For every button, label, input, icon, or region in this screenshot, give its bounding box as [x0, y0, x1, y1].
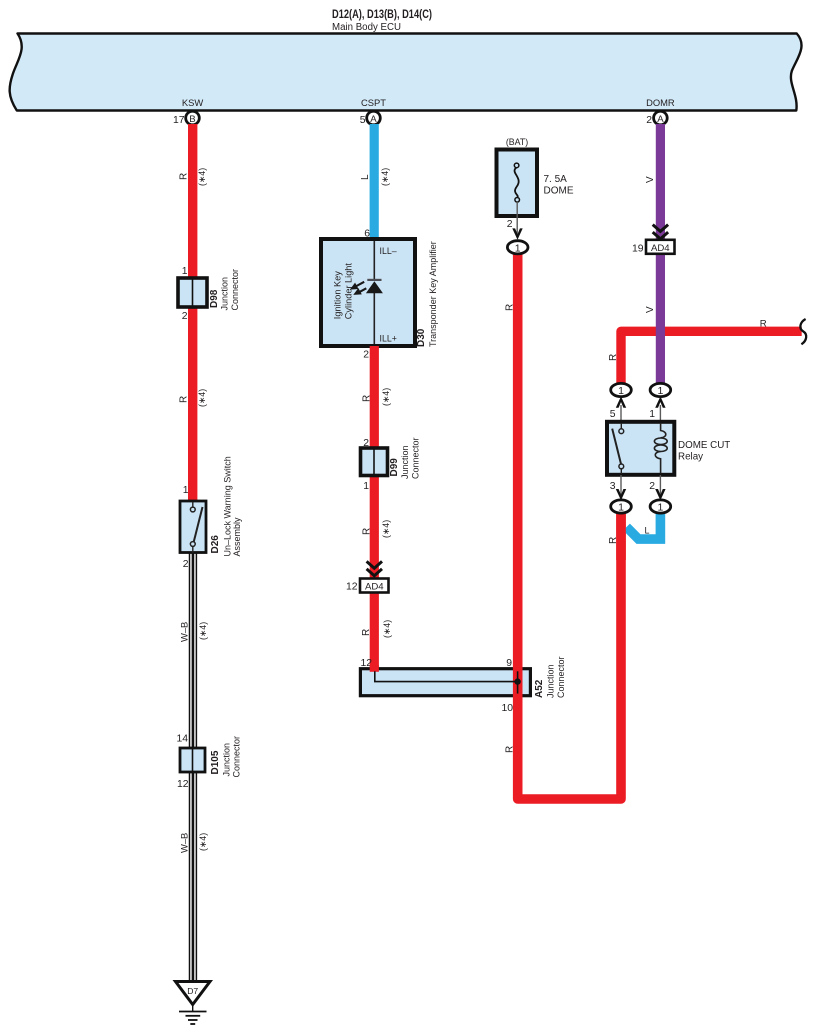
wire R fuse down through A52 and up to relay pin 3 [518, 246, 621, 799]
svg-text:Junction: Junction [222, 743, 232, 777]
svg-text:D105: D105 [210, 750, 221, 774]
svg-text:AD4: AD4 [365, 582, 384, 593]
svg-text:Ignition Key: Ignition Key [333, 271, 343, 319]
svg-text:5: 5 [360, 115, 366, 126]
svg-text:Transponder Key Amplifier: Transponder Key Amplifier [428, 241, 438, 347]
svg-text:A52: A52 [534, 679, 545, 698]
pin circle B [186, 111, 200, 125]
svg-text:(∗4): (∗4) [381, 520, 391, 538]
svg-text:CSPT: CSPT [361, 97, 386, 108]
pin 3 stub [620, 475, 622, 496]
svg-text:Junction: Junction [400, 445, 410, 479]
wire R horizontal to right edge [621, 331, 802, 392]
svg-text:19: 19 [632, 244, 644, 255]
svg-text:W–B: W–B [179, 833, 190, 853]
fuse element symbol [515, 167, 519, 197]
svg-text:R: R [361, 629, 372, 636]
svg-text:R: R [608, 537, 619, 544]
svg-text:(∗4): (∗4) [382, 620, 392, 638]
svg-text:Connector: Connector [232, 736, 242, 778]
break squiggle [800, 319, 806, 344]
arrow down pin 2 [655, 489, 665, 500]
svg-text:ILL+: ILL+ [380, 334, 397, 344]
wire L from CSPT to D30 [370, 124, 379, 241]
svg-text:AD4: AD4 [651, 243, 670, 254]
svg-text:1: 1 [363, 481, 369, 492]
junction connector D99 [361, 448, 388, 476]
svg-text:R: R [179, 173, 190, 180]
relay switch contact [620, 423, 622, 429]
svg-text:2: 2 [182, 311, 188, 322]
svg-text:2: 2 [507, 219, 513, 230]
shield arrow into AD4 (12) [367, 561, 382, 575]
svg-text:1: 1 [183, 485, 189, 496]
svg-text:DOMR: DOMR [646, 97, 675, 108]
svg-text:D30: D30 [416, 328, 427, 347]
svg-text:R: R [608, 354, 619, 361]
svg-text:(∗4): (∗4) [197, 389, 207, 407]
svg-text:B: B [189, 114, 195, 125]
svg-text:2: 2 [646, 115, 652, 126]
svg-text:W–B: W–B [179, 622, 190, 642]
un-lock warning switch D26 [180, 501, 206, 553]
pin 1 stub [659, 405, 661, 422]
svg-text:A: A [370, 114, 377, 125]
svg-text:7. 5A: 7. 5A [544, 174, 568, 185]
connector ellipse 1 (relay pin 1) [650, 383, 671, 397]
svg-text:12: 12 [177, 779, 189, 790]
svg-text:D7: D7 [187, 986, 198, 996]
svg-text:1: 1 [182, 266, 188, 277]
wire R into A52 pin 12 [370, 665, 379, 672]
A52 internal busbar [375, 671, 518, 693]
svg-text:2: 2 [363, 350, 369, 361]
svg-text:10: 10 [501, 703, 513, 714]
svg-text:1: 1 [649, 409, 655, 420]
svg-text:(∗4): (∗4) [197, 168, 207, 186]
svg-text:Connector: Connector [230, 269, 240, 311]
wire from fuse pin 2 [516, 202, 518, 234]
svg-text:R: R [505, 304, 516, 311]
svg-text:V: V [645, 176, 656, 183]
redraw red over blue tip [616, 508, 626, 560]
svg-text:DOME CUT: DOME CUT [678, 440, 730, 451]
svg-text:R: R [760, 318, 767, 329]
svg-text:3: 3 [610, 481, 616, 492]
wire V from DOMR to AD4 and relay [656, 124, 665, 392]
svg-text:D26: D26 [210, 535, 221, 554]
wire R from D30 to AD4 [370, 346, 379, 672]
svg-text:12: 12 [346, 582, 358, 593]
svg-text:2: 2 [183, 559, 189, 570]
wire L from relay pin 2 to red junction [627, 508, 661, 539]
arrow into connector 1 [512, 228, 522, 239]
svg-text:(∗4): (∗4) [380, 168, 390, 186]
svg-text:D98: D98 [209, 289, 220, 308]
svg-text:(∗4): (∗4) [198, 833, 208, 851]
shield arrow into AD4 (19) [653, 225, 668, 239]
DOME CUT relay box [607, 422, 674, 475]
svg-text:Cylinder Light: Cylinder Light [344, 263, 354, 320]
fuse 7.5A DOME [497, 150, 538, 217]
junction connector D105 [180, 748, 205, 772]
svg-text:Connector: Connector [556, 656, 566, 698]
svg-text:D99: D99 [389, 458, 400, 477]
connector ellipse 1 (fuse) [507, 241, 528, 255]
svg-text:(∗4): (∗4) [381, 388, 391, 406]
svg-text:Main Body ECU: Main Body ECU [332, 22, 401, 33]
wire W-B from D26 to D105 [190, 553, 197, 981]
svg-text:Junction: Junction [546, 664, 556, 698]
svg-text:R: R [362, 395, 373, 402]
svg-text:R: R [505, 746, 516, 753]
relay coil [654, 423, 667, 474]
svg-text:R: R [362, 528, 373, 535]
svg-text:L: L [645, 526, 650, 536]
pin 5 stub [620, 405, 622, 422]
svg-text:ILL–: ILL– [380, 246, 397, 256]
svg-text:17: 17 [173, 115, 185, 126]
svg-text:R: R [179, 396, 190, 403]
ground D7 [176, 982, 211, 1005]
junction connector D98 [178, 278, 207, 307]
svg-text:(∗4): (∗4) [198, 622, 208, 640]
svg-text:Relay: Relay [678, 452, 703, 463]
LED emission arrows [351, 282, 366, 295]
svg-text:Junction: Junction [220, 277, 230, 311]
wire R from KSW to D98 [188, 124, 197, 502]
connector ellipse 1 (relay pin 5) [611, 383, 632, 397]
svg-text:5: 5 [610, 409, 616, 420]
LED diode [367, 279, 381, 281]
svg-text:(BAT): (BAT) [506, 137, 528, 147]
pin 2 stub [659, 475, 661, 496]
svg-text:KSW: KSW [182, 97, 204, 108]
arrow up pin 1 [655, 396, 665, 407]
svg-text:A: A [657, 114, 664, 125]
connector ellipse 1 (relay pin 2) [650, 500, 671, 514]
ignition key cylinder light / D30 transponder key amplifier [321, 239, 415, 346]
svg-text:Connector: Connector [411, 437, 421, 479]
arrow up pin 5 [616, 396, 626, 407]
junction connector A52 [360, 669, 530, 696]
arrow down pin 3 [616, 489, 626, 500]
svg-text:Un–Lock Warning Switch: Un–Lock Warning Switch [223, 456, 233, 556]
svg-text:D12(A), D13(B), D14(C): D12(A), D13(B), D14(C) [332, 7, 432, 21]
pin circle A [367, 111, 381, 125]
svg-text:14: 14 [176, 734, 188, 745]
Main Body ECU band [10, 34, 802, 111]
pin circle A [654, 111, 668, 125]
svg-text:2: 2 [649, 481, 655, 492]
svg-text:DOME: DOME [544, 186, 574, 197]
svg-text:Assembly: Assembly [232, 517, 242, 557]
svg-text:V: V [645, 306, 656, 313]
connector ellipse 1 (relay pin 3) [611, 500, 632, 514]
ground symbol [179, 1005, 207, 1025]
svg-text:L: L [360, 174, 371, 180]
